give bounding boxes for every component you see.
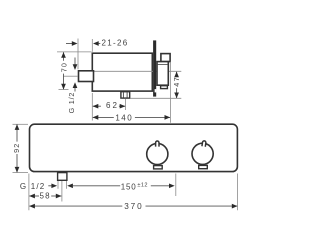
svg-text:140: 140	[115, 113, 133, 122]
svg-text:47: 47	[172, 76, 181, 87]
svg-text:21-26: 21-26	[102, 39, 129, 48]
svg-text:150: 150	[121, 182, 137, 191]
svg-text:62: 62	[106, 101, 119, 110]
svg-text:92: 92	[12, 143, 21, 153]
svg-text:G 1/2: G 1/2	[67, 92, 76, 114]
svg-text:58: 58	[40, 191, 51, 200]
svg-text:±12: ±12	[137, 182, 148, 188]
svg-text:70: 70	[59, 62, 68, 72]
svg-text:G 1/2: G 1/2	[20, 182, 46, 191]
svg-text:370: 370	[124, 202, 143, 211]
